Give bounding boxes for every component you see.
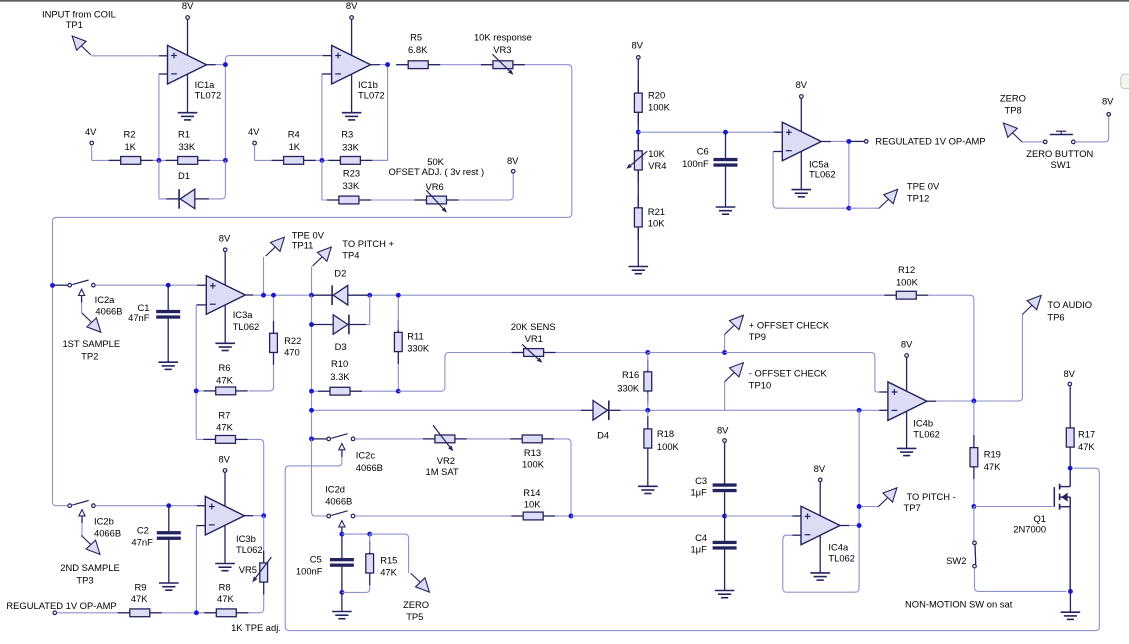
wire IC2d to R14 bbox=[355, 515, 511, 517]
svg-text:TP2: TP2 bbox=[81, 350, 98, 361]
node C2 top bbox=[166, 503, 171, 508]
node C6 top bbox=[723, 130, 728, 135]
svg-text:TP11: TP11 bbox=[292, 240, 314, 251]
test point TP3 bbox=[81, 535, 91, 544]
svg-text:47K: 47K bbox=[217, 593, 234, 604]
svg-text:8V: 8V bbox=[901, 338, 913, 349]
ground C2 bbox=[159, 582, 179, 584]
svg-text:4066B: 4066B bbox=[356, 462, 383, 473]
svg-text:TP4: TP4 bbox=[342, 250, 359, 261]
test point TP8 bbox=[1012, 133, 1022, 142]
potentiometer VR6 bbox=[415, 199, 427, 201]
wire R17 to drain bbox=[1069, 460, 1071, 469]
resistor R9 bbox=[118, 612, 130, 614]
svg-text:ZERO BUTTON: ZERO BUTTON bbox=[1026, 148, 1093, 159]
wire to TP11 bbox=[263, 257, 265, 295]
terminal REGULATED 1V OP-AMP bbox=[864, 140, 868, 144]
svg-text:R11: R11 bbox=[407, 331, 424, 342]
wire out to terminal bbox=[851, 140, 864, 142]
svg-text:R7: R7 bbox=[218, 409, 230, 420]
svg-text:6.8K: 6.8K bbox=[408, 44, 428, 55]
node source bbox=[1068, 589, 1073, 594]
resistor R15 bbox=[369, 541, 371, 553]
svg-text:TP7: TP7 bbox=[904, 502, 921, 513]
wire R10 to node bbox=[312, 390, 399, 392]
ground IC5a bbox=[792, 189, 812, 191]
wire node to C4 bbox=[724, 516, 726, 541]
resistor R18 bbox=[647, 410, 649, 418]
svg-text:4V: 4V bbox=[248, 126, 260, 137]
wire 8V to R17 bbox=[1069, 386, 1071, 416]
node IC4b out bbox=[971, 399, 976, 404]
resistor R3 bbox=[328, 159, 340, 161]
resistor R4 bbox=[272, 159, 284, 161]
svg-text:1ST SAMPLE: 1ST SAMPLE bbox=[62, 338, 120, 349]
svg-text:C2: C2 bbox=[137, 524, 149, 535]
wire IC3b - input down bbox=[195, 526, 197, 613]
svg-text:8V: 8V bbox=[346, 0, 358, 11]
svg-text:ZERO: ZERO bbox=[1000, 92, 1026, 103]
svg-text:3.3K: 3.3K bbox=[330, 371, 350, 382]
svg-text:R20: R20 bbox=[648, 90, 665, 101]
wire node to C3 C4 bbox=[571, 515, 725, 517]
wire R2 R1 row bbox=[111, 159, 226, 161]
top border line bbox=[0, 0, 1129, 2]
svg-text:33K: 33K bbox=[343, 180, 360, 191]
svg-text:TP3: TP3 bbox=[76, 574, 93, 585]
8V terminal IC1a bbox=[186, 16, 190, 20]
wire gate bbox=[974, 506, 1053, 508]
diode D2 bbox=[312, 294, 334, 296]
resistor R1 bbox=[166, 159, 178, 161]
svg-text:IC1a: IC1a bbox=[195, 79, 216, 90]
svg-text:VR4: VR4 bbox=[648, 160, 666, 171]
svg-text:R5: R5 bbox=[410, 32, 422, 43]
op-amp IC4b bbox=[888, 382, 927, 421]
wire long to R12 bbox=[370, 294, 885, 296]
svg-text:IC2a: IC2a bbox=[95, 294, 116, 305]
svg-text:8V: 8V bbox=[717, 424, 729, 435]
control IC2d bbox=[339, 521, 345, 527]
ground IC3b bbox=[215, 563, 235, 565]
op-amp IC3b bbox=[205, 496, 244, 535]
svg-text:D3: D3 bbox=[335, 341, 347, 352]
wire IC4b - stub bbox=[859, 409, 879, 411]
wire D1 to node bbox=[206, 160, 225, 199]
node TP7 bbox=[857, 504, 862, 509]
resistor R6 bbox=[196, 390, 206, 392]
wire R20 VR4 R21 chain bbox=[637, 59, 639, 266]
wire TP10 tail bbox=[724, 382, 726, 411]
wire R5 VR3 row bbox=[396, 64, 525, 66]
ground R18 bbox=[638, 485, 658, 487]
svg-text:D4: D4 bbox=[597, 430, 609, 441]
svg-text:TL062: TL062 bbox=[233, 321, 260, 332]
node IC3b out bbox=[261, 513, 266, 518]
resistor R14 bbox=[511, 515, 523, 517]
svg-text:C3: C3 bbox=[695, 475, 707, 486]
node C1 top bbox=[166, 283, 171, 288]
svg-text:TO AUDIO: TO AUDIO bbox=[1047, 299, 1092, 310]
wire IC4a out up to row410 bbox=[858, 410, 860, 525]
svg-text:R15: R15 bbox=[380, 554, 397, 565]
wire IC2b to C2 IC3b bbox=[95, 505, 197, 507]
svg-text:2N7000: 2N7000 bbox=[1013, 524, 1046, 535]
wire R9 R8 row bbox=[118, 612, 249, 614]
ui fragment top-right corner bbox=[1121, 74, 1129, 88]
wire C2 to ground bbox=[168, 540, 170, 583]
svg-text:R1: R1 bbox=[178, 129, 190, 140]
svg-text:1K TPE adj.: 1K TPE adj. bbox=[231, 622, 281, 633]
svg-text:IC2c: IC2c bbox=[356, 450, 376, 461]
svg-text:R12: R12 bbox=[898, 264, 915, 275]
svg-text:TPE 0V: TPE 0V bbox=[907, 180, 940, 191]
wire VR1 right bbox=[556, 352, 648, 354]
ground IC1b bbox=[342, 112, 362, 114]
svg-text:2ND SAMPLE: 2ND SAMPLE bbox=[60, 562, 119, 573]
8V terminal IC3a bbox=[223, 248, 227, 252]
svg-text:TP8: TP8 bbox=[1005, 104, 1022, 115]
wire TP9 node to IC4b + bbox=[725, 353, 880, 393]
wire to R22 bbox=[273, 295, 275, 331]
node IC1b out bbox=[385, 62, 390, 67]
transistor Q1 2N7000 bbox=[1053, 487, 1055, 507]
svg-text:VR3: VR3 bbox=[493, 44, 511, 55]
wire SW2 to source node bbox=[975, 568, 1067, 591]
svg-text:R9: R9 bbox=[135, 581, 147, 592]
svg-text:1μF: 1μF bbox=[690, 486, 707, 497]
wire VR2 to R13 bbox=[467, 438, 510, 440]
wire IC1b out bbox=[380, 64, 388, 66]
resistor R7 bbox=[204, 438, 216, 440]
node R1 right bbox=[223, 158, 228, 163]
svg-text:R18: R18 bbox=[657, 428, 674, 439]
node R6 left bbox=[194, 388, 199, 393]
wire IC5a feedback bbox=[773, 141, 849, 208]
svg-text:R4: R4 bbox=[288, 129, 300, 140]
ground Q1 bbox=[1061, 611, 1081, 613]
svg-text:8V: 8V bbox=[796, 79, 808, 90]
switch IC2a bbox=[55, 284, 68, 286]
svg-text:8V: 8V bbox=[1063, 368, 1075, 379]
svg-text:R17: R17 bbox=[1078, 429, 1095, 440]
wire IC4a out bbox=[849, 525, 859, 527]
wire IC5a out bbox=[831, 140, 849, 142]
test point TP7 bbox=[878, 498, 888, 507]
wire IC3a feedback bus bbox=[196, 305, 206, 440]
svg-text:8V: 8V bbox=[219, 232, 231, 243]
svg-text:8V: 8V bbox=[218, 454, 230, 465]
resistor R23 bbox=[327, 199, 339, 201]
node C5 bottom bbox=[339, 590, 344, 595]
svg-text:330K: 330K bbox=[407, 342, 430, 353]
svg-text:SW1: SW1 bbox=[1051, 159, 1071, 170]
wire VR5 to R8 bbox=[248, 595, 263, 613]
svg-text:47nF: 47nF bbox=[128, 312, 150, 323]
wire 4V to R4 bbox=[255, 145, 274, 161]
resistor R12 bbox=[884, 294, 896, 296]
resistor R19 bbox=[973, 435, 975, 447]
8V terminal IC4b bbox=[905, 354, 909, 358]
svg-text:100K: 100K bbox=[522, 459, 545, 470]
8V terminal IC4a bbox=[818, 478, 822, 482]
wire C6 lead bbox=[725, 132, 727, 158]
svg-text:8V: 8V bbox=[814, 463, 826, 474]
terminal REGULATED 1V OP-AMP bottom bbox=[53, 611, 57, 615]
wire source to ground bbox=[1069, 591, 1071, 612]
8V terminal C3 bbox=[723, 439, 727, 443]
svg-text:8V: 8V bbox=[507, 155, 519, 166]
wire R7 to IC3b out bbox=[248, 439, 264, 515]
test point TP11 bbox=[266, 247, 276, 256]
resistor R16 bbox=[647, 359, 649, 371]
node drain bbox=[1068, 466, 1073, 471]
node sample bus row410 bbox=[309, 408, 314, 413]
resistor R11 bbox=[397, 320, 399, 332]
node IC1a out bbox=[223, 62, 228, 67]
switch IC2c bbox=[314, 438, 327, 440]
node sample bus D3 bbox=[309, 322, 314, 327]
svg-text:R6: R6 bbox=[219, 362, 231, 373]
svg-text:TP1: TP1 bbox=[66, 19, 83, 30]
svg-text:4066B: 4066B bbox=[95, 305, 122, 316]
resistor R2 bbox=[109, 159, 121, 161]
wire 4V to R2 bbox=[92, 145, 111, 161]
svg-text:REGULATED 1V OP-AMP: REGULATED 1V OP-AMP bbox=[6, 600, 116, 611]
wire TP7 tail bbox=[859, 506, 878, 508]
switch IC2d bbox=[327, 514, 331, 518]
svg-text:470: 470 bbox=[284, 347, 300, 358]
svg-text:TP6: TP6 bbox=[1047, 311, 1064, 322]
node R11 top bbox=[396, 293, 401, 298]
capacitor C6 bbox=[714, 158, 738, 161]
node D4 R16 R18 bbox=[645, 408, 650, 413]
4V terminal right bbox=[253, 141, 257, 145]
svg-text:TL072: TL072 bbox=[195, 90, 222, 101]
node C5 top bbox=[339, 532, 344, 537]
svg-text:47K: 47K bbox=[216, 421, 233, 432]
resistor R10 bbox=[318, 390, 330, 392]
ground IC4a bbox=[810, 572, 830, 574]
wire R12 to node bbox=[928, 295, 974, 401]
svg-text:8V: 8V bbox=[631, 40, 643, 51]
svg-text:47K: 47K bbox=[216, 374, 233, 385]
svg-text:100K: 100K bbox=[896, 277, 919, 288]
svg-text:C4: C4 bbox=[695, 532, 707, 543]
svg-text:47K: 47K bbox=[984, 461, 1001, 472]
ground C1 bbox=[158, 361, 178, 363]
wire C1 lead bbox=[167, 285, 169, 310]
wire IC1a out to IC1b + bbox=[225, 56, 322, 65]
svg-text:100K: 100K bbox=[648, 101, 671, 112]
wire R13 to row516 bbox=[554, 439, 571, 516]
wire R23 VR6 row bbox=[327, 199, 459, 201]
svg-text:R10: R10 bbox=[331, 358, 348, 369]
8V terminal R20 bbox=[637, 56, 641, 60]
svg-text:ZERO: ZERO bbox=[403, 599, 429, 610]
wire IC3b out bbox=[253, 515, 264, 517]
wire C1 to ground bbox=[167, 319, 169, 363]
op-amp IC4a bbox=[801, 506, 840, 545]
svg-text:47K: 47K bbox=[1078, 441, 1095, 452]
ground C4 bbox=[715, 590, 735, 592]
node R16 top bbox=[645, 350, 650, 355]
wire to TP4 bbox=[311, 267, 313, 296]
wire IC2c to VR2 bbox=[355, 438, 423, 440]
wire C2 lead bbox=[168, 506, 170, 532]
svg-text:IC3a: IC3a bbox=[233, 309, 254, 320]
svg-text:TO PITCH -: TO PITCH - bbox=[907, 491, 956, 502]
wire C5 to ground bbox=[341, 592, 343, 611]
wire IC1a feedback bbox=[158, 74, 160, 160]
wire IC1a out down bbox=[224, 65, 226, 161]
svg-text:TL072: TL072 bbox=[358, 90, 385, 101]
wire node to IC4b - bbox=[648, 409, 859, 411]
svg-text:TL062: TL062 bbox=[913, 429, 940, 440]
wire D4 to node bbox=[621, 409, 648, 411]
wire IC3b out to VR5 bbox=[263, 516, 265, 551]
wire bus down to IC2b bbox=[53, 285, 68, 505]
resistor R5 bbox=[396, 64, 408, 66]
svg-text:TL062: TL062 bbox=[809, 169, 836, 180]
svg-text:R22: R22 bbox=[284, 335, 301, 346]
potentiometer VR3 bbox=[481, 64, 493, 66]
wire R18 to ground bbox=[647, 461, 649, 487]
svg-text:10K: 10K bbox=[648, 217, 665, 228]
svg-text:R8: R8 bbox=[219, 581, 231, 592]
node sample bus R10 bbox=[309, 389, 314, 394]
wire node R15 bbox=[342, 533, 370, 535]
node TP12 junction bbox=[846, 206, 851, 211]
node gate bbox=[971, 504, 976, 509]
8V terminal IC3b bbox=[223, 469, 227, 473]
svg-text:TL062: TL062 bbox=[828, 553, 855, 564]
wire node to R23 bbox=[322, 160, 327, 200]
wire C4 to ground bbox=[724, 550, 726, 591]
wire C5 lead bbox=[341, 534, 343, 558]
op-amp IC3a bbox=[206, 276, 245, 315]
potentiometer VR1 bbox=[512, 352, 524, 354]
wire R15 to C5 bottom bbox=[342, 585, 370, 592]
wire D3 to D2 node bbox=[365, 295, 370, 324]
switch SW2 bbox=[973, 541, 977, 545]
8V terminal IC5a bbox=[800, 95, 804, 99]
diode D1 bbox=[166, 198, 180, 200]
wire to TP5 bbox=[370, 534, 409, 573]
wire gate node to SW2 bbox=[973, 507, 975, 542]
svg-text:TP9: TP9 bbox=[749, 331, 766, 342]
svg-text:4066B: 4066B bbox=[94, 528, 121, 539]
svg-text:1μF: 1μF bbox=[690, 544, 707, 555]
wire terminal to R9 bbox=[57, 612, 118, 614]
svg-text:C5: C5 bbox=[310, 554, 322, 565]
svg-text:10K: 10K bbox=[524, 499, 541, 510]
svg-text:IC4a: IC4a bbox=[828, 542, 849, 553]
svg-text:VR1: VR1 bbox=[525, 333, 543, 344]
node IC4a out bbox=[857, 523, 862, 528]
svg-text:TP12: TP12 bbox=[907, 193, 929, 204]
node R10 right bbox=[396, 389, 401, 394]
wire IC1a output bbox=[216, 64, 226, 66]
wire VR6 to 8V bbox=[459, 173, 514, 200]
svg-text:IC2d: IC2d bbox=[325, 483, 345, 494]
svg-text:100K: 100K bbox=[657, 441, 680, 452]
svg-text:VR2: VR2 bbox=[437, 455, 455, 466]
wire R22 to R6 bbox=[248, 365, 273, 391]
svg-text:R13: R13 bbox=[524, 447, 541, 458]
node C3 C4 bbox=[722, 514, 727, 519]
node IC5a out bbox=[846, 139, 851, 144]
control IC2b bbox=[79, 510, 85, 516]
wire C3 to node bbox=[724, 492, 726, 516]
wire node to TO AUDIO bbox=[974, 314, 1023, 401]
wire VR3 to sample bus bbox=[53, 65, 572, 286]
svg-text:8V: 8V bbox=[1102, 95, 1114, 106]
wire IC4a feedback bbox=[783, 526, 859, 593]
node TP4 bus bbox=[309, 293, 314, 298]
test point TP6 bbox=[1022, 305, 1032, 314]
resistor R21 bbox=[637, 195, 639, 207]
svg-text:33K: 33K bbox=[342, 141, 359, 152]
8V terminal R17 bbox=[1068, 382, 1072, 386]
capacitor C3 bbox=[713, 483, 737, 486]
test point TP10 bbox=[725, 372, 735, 381]
switch IC2b bbox=[68, 504, 72, 508]
svg-text:R21: R21 bbox=[648, 206, 665, 217]
ground C5 bbox=[332, 611, 352, 613]
resistor R13 bbox=[510, 438, 522, 440]
svg-text:TL062: TL062 bbox=[236, 544, 263, 555]
test point TP5 bbox=[411, 573, 421, 582]
wire to TP12 bbox=[849, 207, 879, 209]
wire row410 to D4 bbox=[312, 409, 582, 411]
wire C5 to node bbox=[341, 567, 343, 593]
wire R3 to IC1b out bbox=[372, 65, 387, 161]
svg-text:R2: R2 bbox=[124, 129, 136, 140]
svg-text:33K: 33K bbox=[178, 141, 195, 152]
wire SW1 to 8V bbox=[1075, 116, 1109, 142]
svg-text:IC4b: IC4b bbox=[913, 417, 933, 428]
wire R14 to node bbox=[555, 515, 571, 517]
ground IC3a bbox=[215, 342, 235, 344]
svg-text:IC2b: IC2b bbox=[94, 515, 114, 526]
capacitor C5 bbox=[330, 558, 354, 561]
wire R19 to gate node bbox=[973, 479, 975, 506]
svg-text:100nF: 100nF bbox=[296, 566, 323, 577]
ground R21 bbox=[629, 266, 649, 268]
wire node to IC5a + bbox=[638, 131, 773, 133]
svg-text:TP10: TP10 bbox=[749, 379, 771, 390]
8V terminal VR6 bbox=[511, 170, 515, 174]
svg-text:330K: 330K bbox=[617, 382, 640, 393]
4V terminal left bbox=[90, 141, 94, 145]
svg-text:REGULATED 1V OP-AMP: REGULATED 1V OP-AMP bbox=[875, 136, 985, 147]
svg-text:47K: 47K bbox=[131, 593, 148, 604]
svg-text:10K response: 10K response bbox=[474, 32, 532, 43]
diode D3 bbox=[312, 324, 334, 326]
svg-text:Q1: Q1 bbox=[1033, 513, 1046, 524]
node R15 top bbox=[367, 532, 372, 537]
node IC4b - junction bbox=[857, 408, 862, 413]
svg-text:R19: R19 bbox=[984, 449, 1001, 460]
node R9 R8 bbox=[194, 610, 199, 615]
svg-text:OFSET ADJ. ( 3v rest ): OFSET ADJ. ( 3v rest ) bbox=[388, 166, 484, 177]
wire TP9 tail bbox=[724, 334, 726, 352]
wire TP8 to SW1 bbox=[1022, 141, 1043, 143]
wire TP1 to IC1a + bbox=[91, 55, 159, 57]
svg-text:TP5: TP5 bbox=[406, 611, 423, 622]
svg-text:+ OFFSET CHECK: + OFFSET CHECK bbox=[749, 319, 830, 330]
